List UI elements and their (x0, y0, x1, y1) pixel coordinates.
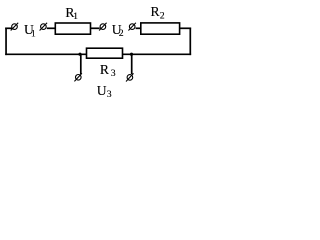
resistor R1 (55, 23, 90, 34)
terminal U3 left (74, 73, 82, 81)
svg-text:1: 1 (31, 28, 36, 39)
svg-text:3: 3 (107, 89, 112, 100)
terminal U3 right (126, 73, 134, 81)
wire terminal to R2 (136, 27, 141, 29)
label U2 (112, 22, 124, 39)
label R3 (100, 62, 116, 79)
wire stub to U3 right terminal (131, 54, 133, 74)
svg-text:U: U (97, 83, 107, 98)
wire left vertical (5, 28, 7, 56)
terminal U1 left (11, 23, 19, 31)
wire top-left to terminal U1+ (5, 27, 12, 29)
node junction left (78, 53, 81, 56)
terminal U2 left (99, 23, 107, 31)
svg-text:2: 2 (160, 11, 165, 22)
label U3 (97, 83, 112, 100)
wire stub to U3 left terminal (80, 54, 82, 74)
wire R1 to terminal U2 (91, 27, 100, 29)
wire right vertical (189, 28, 191, 56)
label R2 (151, 4, 165, 22)
terminal U2 right (128, 23, 136, 31)
wire R2 to top-right corner (180, 27, 192, 29)
resistor R2 (141, 23, 180, 34)
wire middle horizontal (5, 53, 191, 55)
svg-text:2: 2 (119, 28, 124, 39)
label U1 (24, 22, 36, 39)
label R1 (65, 5, 78, 22)
node junction right (130, 53, 133, 56)
wire terminal to R1 (47, 27, 56, 29)
svg-text:R: R (100, 62, 110, 77)
svg-text:3: 3 (111, 68, 116, 79)
svg-text:1: 1 (73, 11, 78, 22)
resistor R3 (87, 48, 123, 58)
terminal U1 right (40, 23, 48, 31)
